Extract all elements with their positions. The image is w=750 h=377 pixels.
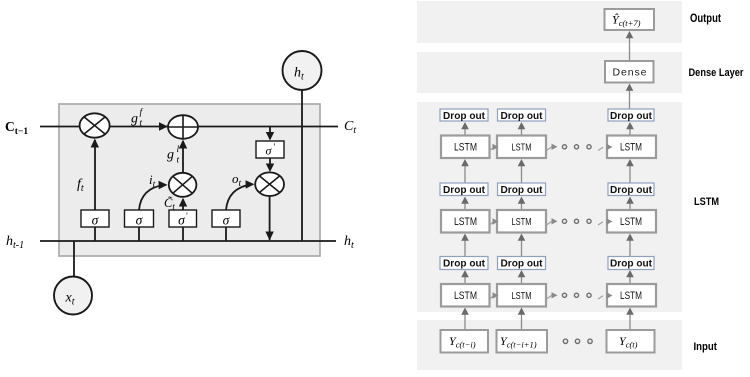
- dropout box C1: [440, 257, 488, 270]
- LSTM box C2: [497, 284, 546, 307]
- arrow dropout-C1 to LSTM-B1: [461, 234, 469, 257]
- svg-text:LSTM: LSTM: [512, 143, 532, 154]
- arrow LSTM-B1 to dropout-B1: [461, 197, 469, 211]
- arrow dropout-B3 to LSTM-A3: [626, 159, 634, 183]
- arrow input2 to LSTM-C2: [518, 308, 526, 331]
- svg-text:ht: ht: [344, 234, 354, 251]
- wire: gtl line (multiply2 up to add node): [179, 140, 187, 173]
- stub wire sigma1 to h line: [94, 227, 96, 241]
- dropout box C3: [608, 257, 654, 270]
- curved wire it (sigma2 to multiply2): [139, 181, 168, 210]
- svg-text:g: g: [131, 112, 138, 127]
- add node (plus): [168, 115, 198, 139]
- svg-text:Ct: Ct: [344, 119, 356, 136]
- stub wire sigma3 to h line: [182, 227, 184, 241]
- label ht (right): [344, 234, 354, 251]
- LSTM box C1: [441, 284, 490, 307]
- label ht-1: [6, 234, 24, 251]
- LSTM box B3: [607, 210, 656, 233]
- arrow dropout-A3 to Dense: [626, 84, 634, 110]
- dropout box C2: [498, 257, 546, 270]
- arrow Dense to Output: [626, 31, 634, 61]
- wire: sigma' box down to multiply3: [266, 158, 274, 172]
- svg-text:LSTM: LSTM: [454, 216, 477, 228]
- xt circle (bottom): [54, 277, 92, 315]
- sigma box 1: [81, 210, 109, 228]
- svg-text:Drop out: Drop out: [443, 110, 485, 122]
- wire: hidden state line h (ht-1 to ht): [40, 240, 336, 242]
- input box 3 Y_c(t): [607, 330, 655, 353]
- arrow LSTM-C2 to dropout-C2: [518, 270, 526, 284]
- connector arrow dots to LSTM-B3: [598, 218, 613, 225]
- multiply node x3 (output gate): [255, 172, 284, 196]
- arrow dropout-B2 to LSTM-A2: [518, 159, 526, 183]
- arrowhead into add node from left: [159, 122, 168, 131]
- dropout box B1: [440, 183, 488, 196]
- svg-text:Drop out: Drop out: [610, 110, 652, 122]
- dots input row: [563, 339, 592, 343]
- svg-text:LSTM: LSTM: [694, 196, 719, 208]
- svg-text:l: l: [177, 145, 180, 155]
- arrow LSTM-C3 to dropout-C3: [626, 270, 634, 284]
- svg-text:g: g: [167, 148, 174, 163]
- band: Input row: [417, 320, 682, 370]
- svg-text:Dense: Dense: [613, 67, 647, 79]
- multiply node x1 (forget gate): [80, 113, 110, 137]
- label gtl: [167, 145, 180, 166]
- svg-text:LSTM: LSTM: [620, 142, 642, 154]
- LSTM cell body box: [59, 104, 320, 256]
- svg-text:LSTM: LSTM: [620, 216, 642, 228]
- arrow LSTM-B2 to dropout-B2: [518, 197, 526, 211]
- sigma' box (on cell state branch): [256, 141, 284, 158]
- band: Dense layer row: [417, 52, 682, 93]
- dropout box B3: [608, 183, 654, 196]
- label Ct (right): [344, 119, 356, 136]
- connector arrow LSTM-C1 to LSTM-C2: [490, 292, 499, 299]
- svg-text:LSTM: LSTM: [454, 142, 477, 154]
- wire: multiply3 down to h line with arrowhead: [265, 196, 273, 241]
- svg-text:LSTM: LSTM: [512, 291, 532, 302]
- arrow LSTM-A2 to dropout-A2: [518, 122, 526, 136]
- connector arrow LSTM-A2 to dots: [547, 144, 558, 151]
- dots row C: [562, 293, 591, 297]
- arrow input1 to LSTM-C1: [461, 308, 469, 331]
- arrow dropout-C3 to LSTM-B3: [626, 234, 634, 257]
- band: Output row: [417, 1, 682, 43]
- dropout box B2: [498, 183, 546, 196]
- dropout box A3: [608, 109, 654, 122]
- sigma box 2: [125, 210, 154, 228]
- svg-text:Output: Output: [690, 13, 721, 25]
- svg-text:Drop out: Drop out: [501, 110, 543, 122]
- LSTM box B1: [441, 210, 490, 233]
- svg-text:Drop out: Drop out: [501, 258, 543, 270]
- stub wire sigma4 to h line: [225, 227, 227, 241]
- label C~t (candidate): [164, 196, 175, 212]
- curved wire ot (sigma4 to multiply3): [226, 180, 255, 210]
- LSTM box C3: [607, 284, 656, 307]
- LSTM box A2: [497, 136, 546, 159]
- svg-text:Dense Layer: Dense Layer: [689, 67, 745, 79]
- svg-text:Input: Input: [694, 341, 718, 353]
- arrow dropout-B1 to LSTM-A1: [461, 159, 469, 183]
- connector arrow LSTM-B2 to dots: [547, 218, 558, 225]
- arrow LSTM-C1 to dropout-C1: [461, 270, 469, 284]
- svg-text:Drop out: Drop out: [443, 258, 485, 270]
- label gtf on C line: [131, 107, 144, 129]
- dropout box A1: [440, 109, 488, 122]
- Dense box: [605, 61, 654, 83]
- wire: ht vertical line from ht circle to h line: [301, 90, 303, 241]
- svg-text:t: t: [177, 156, 180, 166]
- svg-text:LSTM: LSTM: [620, 290, 642, 302]
- svg-text:LSTM: LSTM: [454, 290, 477, 302]
- LSTM box A1: [441, 136, 490, 159]
- multiply node x2 (input gate): [169, 173, 197, 197]
- dots row B: [562, 219, 591, 223]
- connector arrow dots to LSTM-C3: [598, 292, 613, 299]
- svg-text:Ct−1: Ct−1: [5, 119, 28, 137]
- connector arrow LSTM-C2 to dots: [547, 292, 558, 299]
- label ft: [77, 177, 84, 194]
- connector arrow dots to LSTM-A3: [598, 144, 613, 151]
- svg-text:Drop out: Drop out: [443, 184, 485, 196]
- label it: [149, 172, 156, 190]
- label ot: [232, 171, 242, 189]
- input box 2 Y_c(t-i+1): [497, 330, 548, 353]
- arrow input3 to LSTM-C3: [626, 308, 634, 331]
- svg-text:Drop out: Drop out: [501, 184, 543, 196]
- sigma box 4: [212, 210, 240, 228]
- stub wire sigma2 to h line: [138, 227, 140, 241]
- svg-text:Drop out: Drop out: [610, 184, 652, 196]
- wire: drop from C line to sigma' box: [266, 127, 274, 141]
- arrow dropout-C2 to LSTM-B2: [518, 234, 526, 257]
- svg-text:Drop out: Drop out: [610, 258, 652, 270]
- band: LSTM stack: [417, 102, 682, 312]
- wire: forget gate line ft (sigma1 up to multiply node): [91, 139, 99, 211]
- svg-text:t: t: [140, 119, 143, 129]
- wire: cell state line C (Ct-1 to Ct): [40, 126, 338, 128]
- ht circle (top): [283, 51, 322, 90]
- dropout box A2: [498, 109, 546, 122]
- input box 1 Y_c(t-i): [441, 330, 489, 353]
- Output box Y_c(t+7): [605, 9, 655, 30]
- connector arrow LSTM-A1 to LSTM-A2: [490, 144, 499, 151]
- label Ct-1: [5, 119, 28, 137]
- wire: candidate line (sigma3 up to multiply2) with arrowhead: [179, 198, 187, 210]
- connector arrow LSTM-B1 to LSTM-B2: [490, 218, 499, 225]
- dots row A: [562, 145, 591, 149]
- svg-text:LSTM: LSTM: [512, 217, 532, 228]
- sigma' box 3: [169, 210, 197, 228]
- wire: xt vertical line from h line down to xt circle: [73, 241, 75, 277]
- arrow LSTM-B3 to dropout-B3: [626, 197, 634, 211]
- LSTM box A3: [607, 136, 656, 159]
- svg-text:ht-1: ht-1: [6, 234, 24, 251]
- arrow LSTM-A1 to dropout-A1: [461, 122, 469, 136]
- arrow LSTM-A3 to dropout-A3: [626, 122, 634, 136]
- LSTM box B2: [497, 210, 546, 233]
